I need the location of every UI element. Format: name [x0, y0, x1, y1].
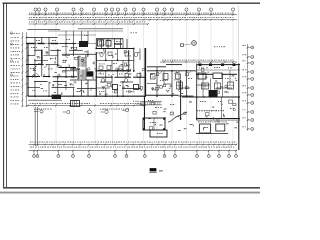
corridor wall y77 segment b	[43, 76, 50, 78]
wall right of central	[147, 66, 166, 68]
interior vertical wall x57.8	[57, 50, 59, 65]
room mesh v-wall x73.5	[73, 44, 75, 57]
room mesh v-wall x117.5	[117, 49, 119, 61]
lower right room a	[200, 124, 211, 133]
room mesh h-wall y87.5	[28, 87, 40, 89]
bottom light gray edge bar	[0, 192, 260, 195]
column symbol b	[134, 85, 139, 90]
drawing frame left inner border line	[6, 3, 8, 188]
room mesh v-wall x140	[139, 49, 141, 61]
shaft room walls	[81, 80, 83, 97]
courtyard small marker	[181, 44, 184, 47]
room mesh v-wall x35	[34, 44, 36, 56]
top dimension text row A	[29, 12, 30, 15]
left dimension line inner	[25, 32, 27, 107]
window line right section	[197, 69, 240, 71]
corridor wall y77 segment e	[133, 76, 145, 78]
canopy upper line	[140, 101, 162, 103]
interior wall row	[96, 48, 134, 50]
marker cluster a	[34, 111, 39, 113]
interior detail marks	[32, 47, 239, 131]
right section wall	[197, 73, 213, 75]
vertical axis grid lines	[35, 6, 239, 150]
garage text row	[197, 110, 198, 111]
marker cluster c	[101, 111, 104, 113]
corridor wall y70.8	[96, 70, 131, 72]
window fixture c	[215, 83, 221, 89]
room mesh h-wall y50.3	[34, 49, 42, 51]
left dimension text column	[11, 33, 21, 104]
building top edge line	[28, 28, 61, 30]
room mesh h-wall y55.4	[28, 54, 35, 56]
stair core hatch	[78, 57, 86, 80]
drawing frame left outer border line	[3, 3, 5, 188]
elevator shaft black block	[87, 71, 94, 76]
lower right divider	[221, 97, 223, 119]
courtyard symbol circle with cross	[192, 41, 197, 46]
terrace wing wall a	[34, 107, 36, 146]
room mesh v-wall x49	[48, 44, 50, 56]
drawing frame bottom border line	[3, 187, 260, 189]
lower right wall	[182, 96, 240, 98]
bottom axis bubble stems	[34, 151, 236, 155]
bottom-left dimension text lower	[38, 108, 40, 111]
right axis bubbles	[251, 46, 254, 131]
room mesh v-wall x105.8	[105, 50, 107, 60]
lower right room b	[216, 124, 225, 131]
bottom gray separator bar	[0, 192, 260, 194]
left dimension line outer	[21, 32, 23, 107]
fixture rect a	[151, 74, 156, 80]
top outer wall segment 4	[60, 43, 77, 45]
left outer wall	[27, 44, 29, 97]
title underline	[149, 171, 157, 173]
shaft black block right	[209, 90, 218, 97]
stair landing wall	[70, 68, 80, 70]
corridor wall y77 segment a	[26, 76, 40, 78]
right dimension text column	[242, 45, 246, 127]
canopy lower line	[140, 104, 162, 106]
central wall lower extension	[144, 96, 146, 130]
right-center room divider c	[171, 71, 173, 96]
wall junction column dots	[27, 43, 239, 120]
right edge wall	[238, 64, 240, 151]
room mesh v-wall x96.3	[95, 39, 97, 49]
terrace wall	[26, 37, 58, 39]
title scale text	[159, 170, 163, 172]
toilet fixtures	[100, 52, 103, 56]
annotation left of extension	[133, 100, 134, 103]
window fixture a	[177, 82, 183, 89]
top axis bubble leader stems	[36, 11, 234, 15]
top outer wall segment 1	[26, 43, 34, 45]
marker cluster b	[63, 111, 67, 113]
entrance porch dark block	[52, 95, 61, 99]
tree symbol a	[88, 110, 92, 114]
door swing arcs left building	[36, 55, 128, 88]
column symbol a	[113, 85, 118, 90]
column blocks top	[199, 63, 236, 66]
terrace lower edge	[28, 99, 62, 101]
building bottom wall left	[28, 95, 146, 97]
lower room block A	[143, 118, 165, 130]
lower room block B	[150, 130, 167, 137]
title text block	[150, 168, 157, 171]
right-center room divider e	[186, 71, 188, 96]
steps block	[71, 101, 80, 107]
right-center h-wall y83	[147, 83, 157, 85]
shaft side wall	[87, 50, 89, 56]
right-center room divider b	[163, 71, 165, 84]
room mesh v-wall x112	[111, 60, 113, 71]
upper wall right of center	[96, 38, 123, 40]
drawing frame top border line	[3, 2, 261, 4]
bottom dimension line row B	[29, 150, 238, 152]
interior dimension string	[160, 61, 237, 63]
upper room wall y54	[62, 53, 96, 55]
lower right sub text	[198, 120, 200, 123]
room label text smudges	[30, 35, 234, 134]
bottom-left dimension text	[29, 102, 32, 105]
small room b	[213, 73, 222, 79]
strong interior vertical wall x41.8	[41, 50, 43, 64]
lower right wall c	[196, 133, 228, 135]
left axis bubbles	[10, 32, 12, 76]
corridor wall right-center	[147, 70, 196, 72]
small room a	[198, 73, 206, 79]
room mesh h-wall y67.5	[58, 67, 76, 69]
right dimension line	[247, 44, 249, 131]
central rooms right edge	[128, 50, 130, 72]
lower wall mid b	[179, 95, 194, 97]
balcony rail top-left	[48, 30, 123, 32]
door arcs right-center	[159, 71, 191, 74]
wall stub	[114, 43, 122, 45]
marker cluster d	[122, 110, 125, 112]
top outer wall window sill line	[26, 43, 96, 45]
top outer wall segment 3	[51, 43, 59, 45]
corridor wall y77 segment c	[53, 76, 78, 78]
room mesh h-wall y81.5	[34, 81, 48, 83]
bath fixture room A	[98, 40, 104, 46]
terrace wing wall b	[37, 107, 39, 146]
bottom-left dimension line	[28, 105, 146, 107]
top dimension text row C	[29, 21, 30, 24]
terrace dividers	[35, 38, 49, 44]
corridor wall y77 segment d	[96, 76, 112, 78]
bottom axis bubbles row	[33, 155, 238, 158]
right section dividers	[202, 74, 204, 97]
right section top wall a	[166, 64, 182, 66]
right axis bubble stems	[248, 48, 251, 130]
central upper text	[131, 31, 132, 34]
room mesh v-wall x123	[122, 39, 124, 49]
bottom dimension line row A	[29, 144, 238, 146]
fixture rect c	[176, 74, 181, 79]
shaft room label	[79, 90, 80, 93]
right section left wall	[196, 64, 198, 121]
mid room fixtures	[99, 66, 103, 69]
interior vertical lower	[180, 80, 182, 120]
bath fixture room B	[106, 41, 111, 47]
top dimension line row A	[29, 14, 238, 16]
lower right wall b	[196, 118, 240, 120]
bottom dimension text row A	[30, 141, 31, 144]
central heavy vertical wall	[144, 48, 146, 96]
room mesh v-wall x66	[65, 44, 67, 56]
top axis bubbles row	[34, 8, 235, 11]
dark wall block	[79, 41, 88, 47]
right wing upper text	[214, 45, 216, 48]
window fixture b	[202, 83, 209, 89]
balcony dividers right	[66, 31, 88, 44]
right section h-wall	[197, 84, 210, 86]
window fixture d	[228, 82, 234, 89]
right-center room divider a	[156, 67, 158, 96]
top dimension line row B	[29, 19, 238, 21]
right section top wall b	[197, 64, 240, 66]
lower wall mid	[146, 94, 179, 96]
balcony rail mid	[58, 34, 96, 36]
balcony upper edge	[78, 28, 123, 30]
bottom dimension text row B	[30, 146, 32, 149]
top dimension line row C	[29, 23, 149, 25]
top outer wall segment 2	[38, 43, 45, 45]
curved path	[168, 112, 187, 122]
top dimension text row B	[28, 16, 31, 19]
upper room dividers center	[102, 39, 128, 49]
right-center room divider d	[178, 71, 180, 88]
room mesh h-wall y64.5	[26, 64, 44, 66]
room mesh h-wall y60.3	[96, 59, 134, 61]
fixture rect b	[163, 74, 168, 80]
